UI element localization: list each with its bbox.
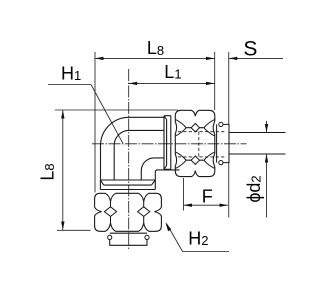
tube stub phi-d2 lines xyxy=(229,133,286,155)
extension line far right (sleeve edge, for S and F) xyxy=(228,52,230,218)
nut B diamond marks xyxy=(104,207,116,217)
nut B gasket circles and bottom stub xyxy=(110,232,147,234)
centerline vertical (port B axis) xyxy=(128,69,130,251)
flange B (bottom port) xyxy=(100,180,155,190)
svg-text:S: S xyxy=(243,37,257,60)
flange A (right port) xyxy=(164,116,171,170)
dimension L8 left (vertical) xyxy=(38,110,65,230)
nut A (right) outline xyxy=(175,110,215,176)
centerline horizontal (port A axis) xyxy=(92,143,247,145)
extension line left (nut B left edge, for L8 top) xyxy=(94,52,96,193)
label H1 with leader xyxy=(48,64,123,144)
nut A chamfer arcs lower division xyxy=(176,152,215,168)
extension line right (nut A right edge, for L8/L1) xyxy=(214,52,216,110)
dimension S top right xyxy=(229,37,283,60)
nut B (bottom) outline xyxy=(95,193,162,231)
elbow body outer contour (left edge + outer corner arc + top edge) xyxy=(101,117,165,180)
extension line F left xyxy=(183,178,185,211)
nut A division lines xyxy=(186,128,205,161)
elbow body lower-right corner step xyxy=(155,170,179,190)
nut B division lines xyxy=(111,202,144,223)
dimension F xyxy=(184,187,229,207)
nut A diamond marks xyxy=(191,124,199,132)
dimension phi-d2 (vertical, right) xyxy=(244,121,268,218)
extension line bottom (nut B bottom, for L8 left) xyxy=(57,229,91,231)
sleeve (S width) xyxy=(223,124,229,162)
nut A gasket circles and sleeve xyxy=(216,124,218,162)
elbow body inner corner contour xyxy=(141,158,164,180)
nut A (right) hidden thread lines xyxy=(178,132,225,157)
elbow body second contour (neck silhouette arc) xyxy=(114,130,164,180)
label H2 with leader and arrow xyxy=(166,223,230,252)
extension line top (nut A top edge, for L8 left) xyxy=(55,109,178,111)
dimension L8 top xyxy=(95,38,215,60)
svg-text:F: F xyxy=(202,187,213,207)
dimension L1 xyxy=(129,62,215,85)
nut A chamfer arcs upper division xyxy=(176,120,215,136)
